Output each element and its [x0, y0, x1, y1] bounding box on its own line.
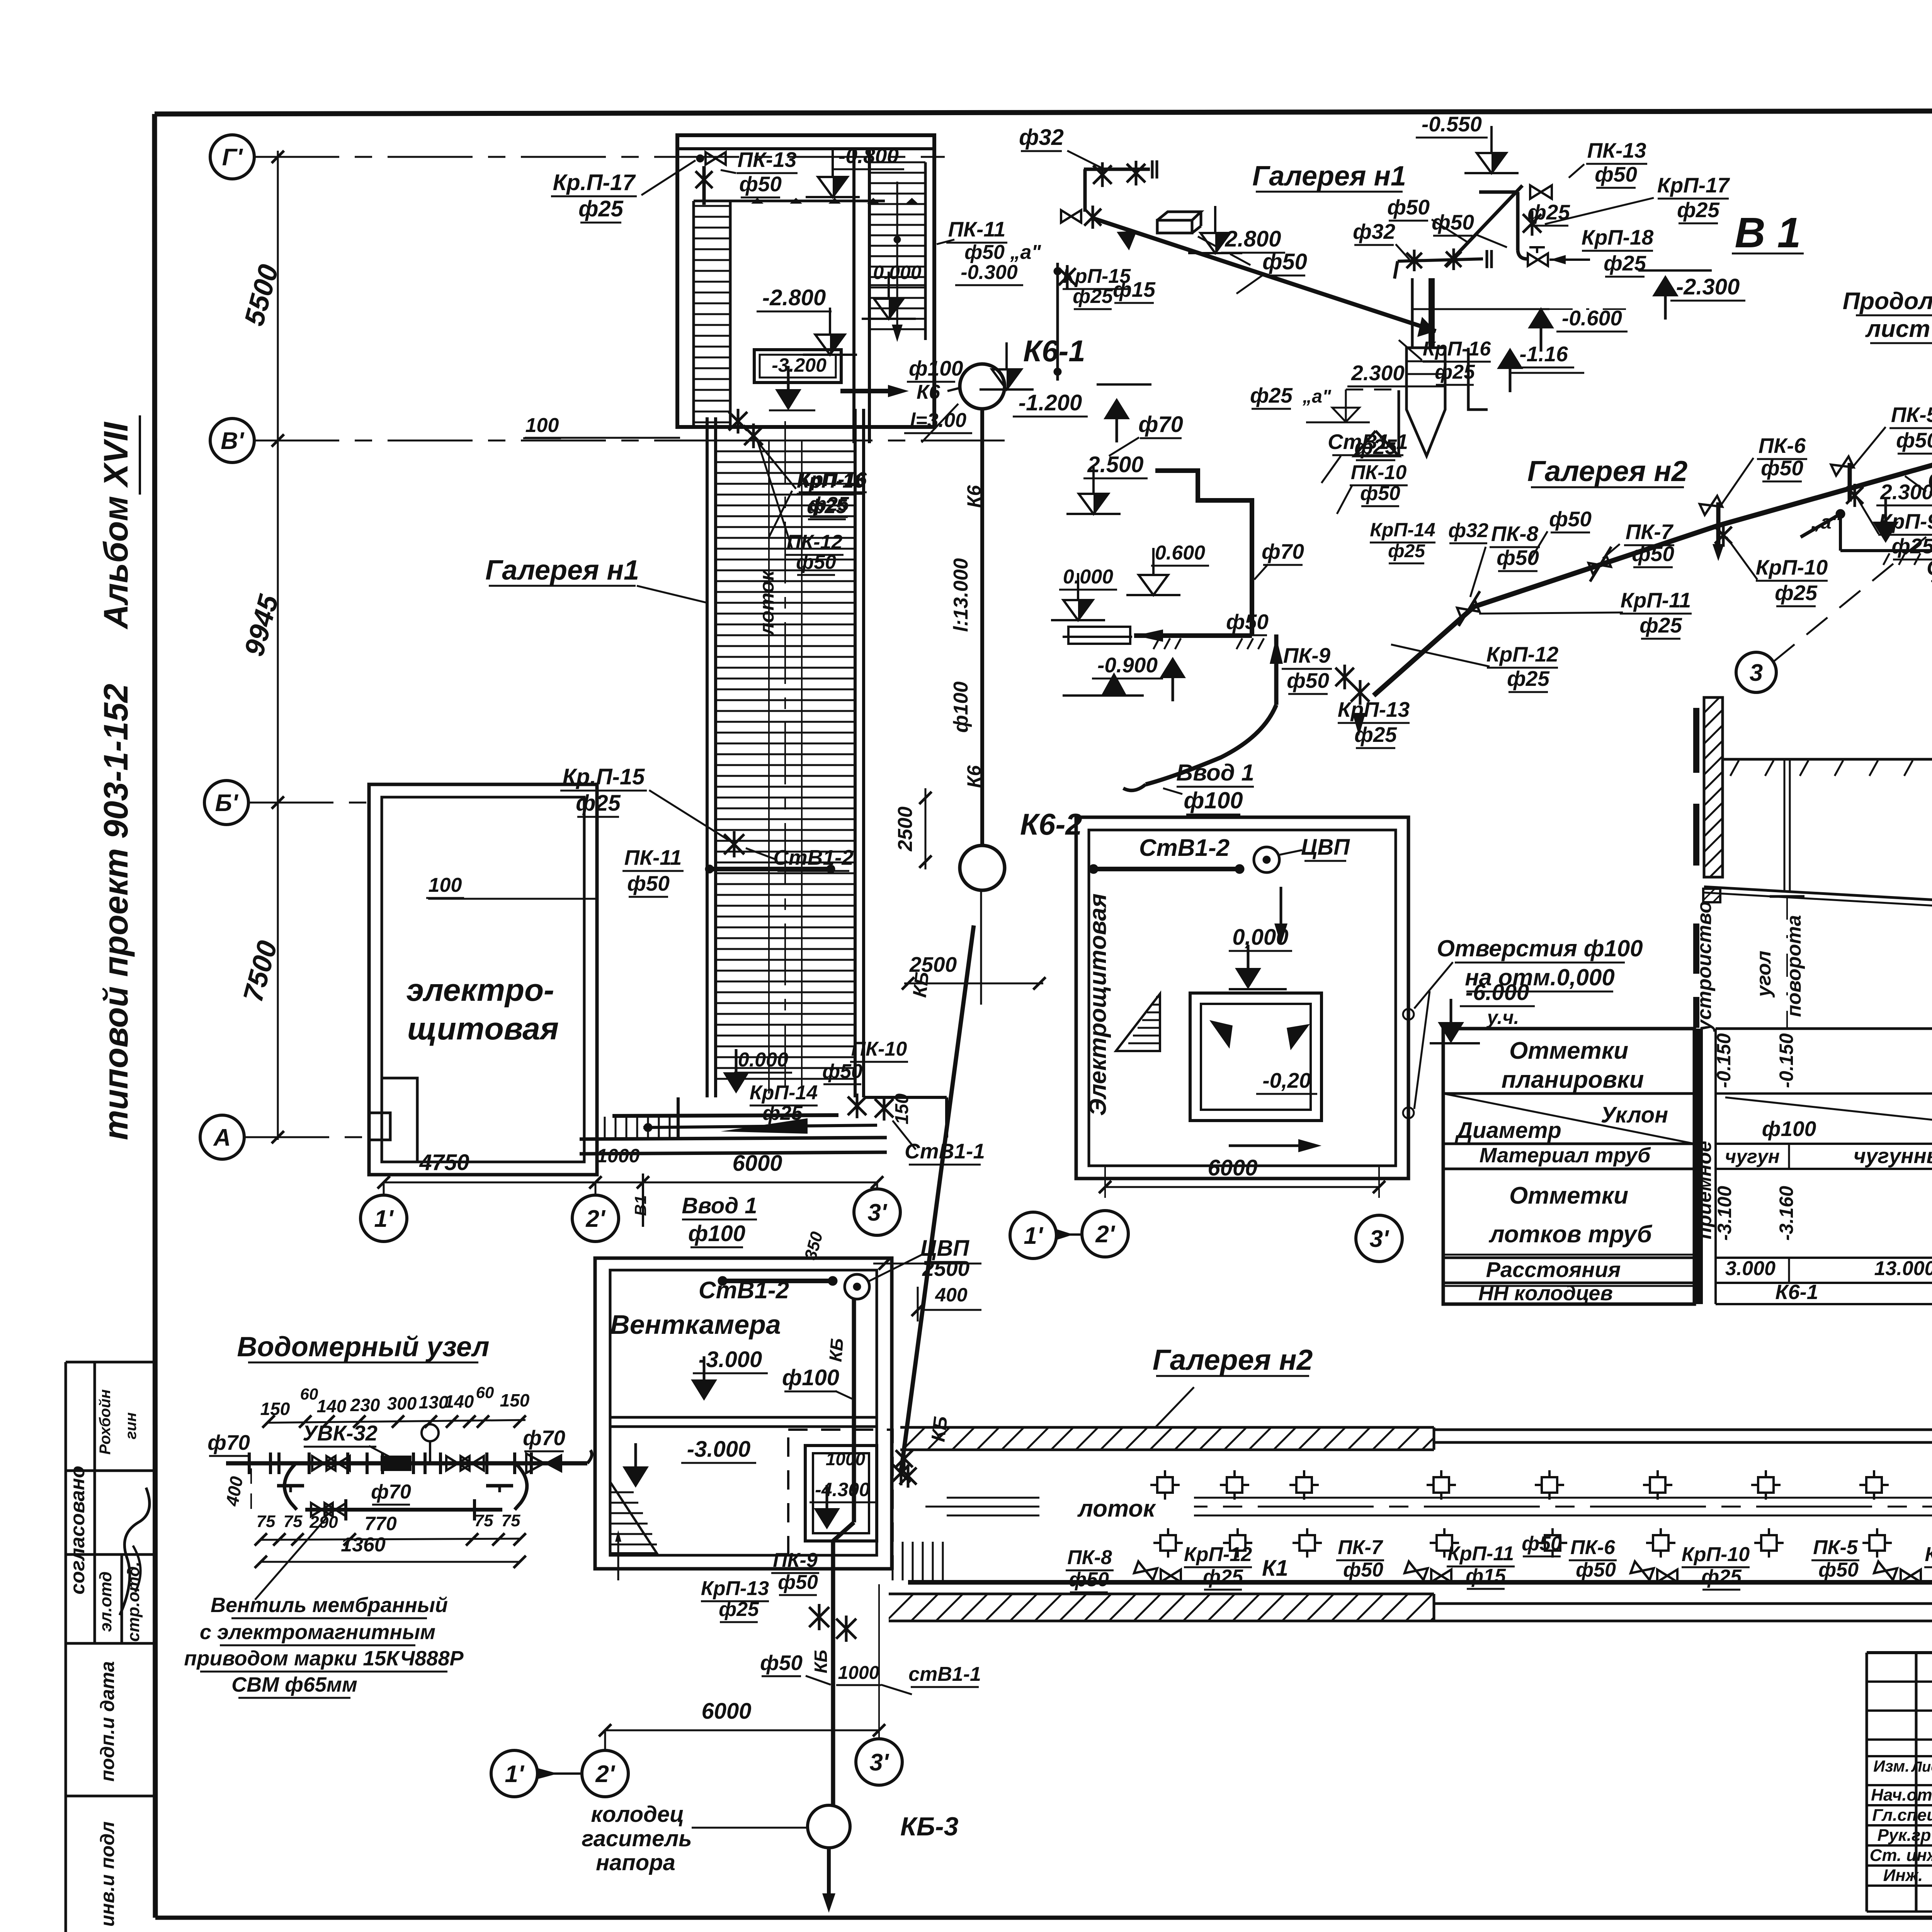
- svg-text:ПК-7: ПК-7: [1626, 520, 1674, 544]
- svg-text:типовой проект 903-1-152: типовой проект 903-1-152: [97, 684, 135, 1140]
- svg-text:ПК-9: ПК-9: [773, 1549, 818, 1571]
- svg-text:ф50: ф50: [739, 172, 782, 196]
- valves on К6 pipe: [809, 1607, 829, 1627]
- svg-text:ф50: ф50: [1226, 610, 1269, 634]
- svg-text:75: 75: [502, 1511, 520, 1530]
- svg-text:Гл.спец: Гл.спец: [1872, 1806, 1932, 1825]
- svg-text:КрП-13: КрП-13: [1338, 697, 1410, 721]
- svg-text:Рук.гр: Рук.гр: [1878, 1826, 1931, 1845]
- dim line 4750/1000/6000: [384, 1182, 877, 1184]
- svg-text:0.000: 0.000: [873, 262, 921, 283]
- axis lines dash-dot: [254, 156, 945, 158]
- svg-text:-0.550: -0.550: [1422, 112, 1482, 136]
- jog ПК-5: [1848, 463, 1852, 502]
- svg-text:ф25: ф25: [1073, 285, 1113, 308]
- svg-text:К6: К6: [963, 765, 985, 788]
- svg-text:КрП-16: КрП-16: [1423, 338, 1491, 360]
- section: left black wall bar: [1693, 708, 1699, 773]
- svg-text:КрП-17: КрП-17: [1657, 173, 1730, 197]
- svg-text:400: 400: [935, 1284, 968, 1306]
- svg-text:Альбом ХVII: Альбом ХVII: [97, 422, 135, 629]
- section: dash verticals to table: [1786, 896, 1788, 1029]
- svg-text:ПК-13: ПК-13: [1587, 138, 1646, 162]
- electro room walls: [369, 784, 597, 1175]
- well К6-1: [960, 364, 1005, 409]
- band left end valves: [896, 1450, 913, 1467]
- dim 2500 rotated + bottom: [980, 890, 982, 1005]
- svg-text:2.800: 2.800: [1225, 226, 1281, 252]
- svg-text:ПК-11: ПК-11: [624, 845, 682, 869]
- svg-text:75: 75: [257, 1512, 276, 1531]
- svg-text:ф15: ф15: [1113, 277, 1156, 301]
- svg-text:у.ч.: у.ч.: [1486, 1007, 1519, 1028]
- svg-text:инв.u подл: инв.u подл: [97, 1821, 118, 1927]
- svg-text:2500: 2500: [894, 806, 917, 852]
- svg-text:ф50: ф50: [1522, 1532, 1562, 1555]
- svg-text:напора: напора: [596, 1850, 675, 1875]
- svg-text:1': 1': [374, 1206, 394, 1232]
- valve cluster top-left (ПК-13): [696, 155, 704, 162]
- valves on main slope: [1457, 600, 1480, 619]
- left tread column: [692, 201, 695, 427]
- pit corner marks: [1209, 1020, 1233, 1049]
- svg-text:Оmмеmкu: Оmмеmкu: [1509, 1182, 1628, 1209]
- svg-text:ф100: ф100: [1762, 1117, 1816, 1141]
- section: floor slope: [1704, 887, 1932, 905]
- svg-text:150: 150: [500, 1390, 530, 1410]
- svg-text:ф25: ф25: [1435, 361, 1475, 383]
- valve pair 1: [1134, 1561, 1157, 1580]
- svg-text:ф32: ф32: [1448, 519, 1488, 542]
- svg-text:75: 75: [474, 1511, 493, 1530]
- svg-text:1000: 1000: [597, 1145, 639, 1167]
- middle plan walls: [1076, 1259, 1077, 1260]
- axis А: [200, 1115, 244, 1159]
- svg-text:0.600: 0.600: [1155, 542, 1205, 564]
- svg-text:КрП-16: КрП-16: [797, 470, 865, 492]
- svg-text:ПК-9: ПК-9: [1283, 643, 1331, 667]
- svg-text:-3.200: -3.200: [772, 354, 827, 376]
- svg-text:ПК-10: ПК-10: [1351, 461, 1407, 484]
- svg-text:ф50: ф50: [1343, 1559, 1383, 1581]
- svg-text:Ввод 1: Ввод 1: [1176, 760, 1254, 786]
- valves main: [312, 1456, 335, 1470]
- svg-text:с элекmромагнumным: с элекmромагнumным: [200, 1621, 435, 1644]
- svg-text:подп.u дата: подп.u дата: [97, 1661, 118, 1782]
- svg-text:эл.отд: эл.отд: [96, 1571, 115, 1632]
- survey crosses: [1157, 1477, 1173, 1493]
- svg-text:КрП-11: КрП-11: [1621, 588, 1691, 612]
- plan: upper stair block walls: [677, 135, 934, 427]
- svg-text:К6-1: К6-1: [1775, 1281, 1818, 1304]
- jog ПК-6: [1716, 502, 1721, 544]
- vent chamber walls: [595, 1258, 892, 1569]
- svg-text:КрП-13: КрП-13: [701, 1577, 769, 1600]
- svg-text:поворота: поворота: [1783, 915, 1805, 1017]
- svg-text:1': 1': [1024, 1223, 1043, 1249]
- gallery H1 corridor walls: [706, 417, 709, 1097]
- svg-text:КрП-9: КрП-9: [1879, 509, 1932, 533]
- svg-text:ф25: ф25: [578, 196, 624, 221]
- svg-text:6000: 6000: [701, 1699, 751, 1724]
- vertical drop + КрП-15 cluster: [1056, 263, 1059, 381]
- gauge: [422, 1424, 439, 1441]
- svg-text:лоток: лоток: [1077, 1495, 1156, 1522]
- svg-text:ф25: ф25: [719, 1598, 759, 1621]
- axis Б': [204, 781, 248, 825]
- СтВ1-2 bar (middle): [1094, 867, 1240, 871]
- bypass pipe: [284, 1464, 297, 1510]
- svg-text:ф32: ф32: [1019, 125, 1064, 150]
- svg-text:ф70: ф70: [207, 1430, 250, 1454]
- svg-text:ф50: ф50: [1360, 482, 1400, 505]
- svg-text:-3.100: -3.100: [1714, 1186, 1735, 1241]
- svg-text:-0.600: -0.600: [1562, 306, 1622, 330]
- svg-text:А: А: [213, 1124, 231, 1151]
- axis dimension line: [277, 151, 279, 1140]
- svg-text:ф50: ф50: [1432, 210, 1474, 234]
- svg-text:Кр.П-17: Кр.П-17: [553, 170, 636, 195]
- horizontal pipe + arrow: [1134, 633, 1252, 638]
- svg-text:1360: 1360: [341, 1534, 386, 1556]
- svg-text:ф25: ф25: [1507, 667, 1550, 690]
- svg-text:Г': Г': [222, 144, 243, 171]
- svg-text:КрП-12: КрП-12: [1486, 642, 1559, 666]
- svg-text:ф50: ф50: [1549, 507, 1592, 531]
- flanges: [248, 1452, 251, 1474]
- svg-text:лоток: лоток: [756, 570, 778, 636]
- section: support columns: [1784, 760, 1786, 893]
- svg-text:СтВ1-2: СтВ1-2: [773, 845, 854, 869]
- svg-text:l:13.000: l:13.000: [950, 558, 972, 632]
- table: value area borders: [1716, 1027, 1932, 1030]
- star valves lower block: [848, 1097, 866, 1115]
- svg-text:В': В': [221, 428, 245, 454]
- horizontal pipe with x marks: [1398, 259, 1483, 261]
- svg-text:0,000: 0,000: [1232, 925, 1288, 950]
- leader ПК-11 to block: [937, 240, 954, 244]
- svg-text:Галерея н1: Галерея н1: [1252, 161, 1406, 192]
- svg-text:лuсm ВК-8: лuсm ВК-8: [1865, 316, 1932, 342]
- svg-text:согласовано: согласовано: [66, 1466, 89, 1594]
- svg-text:ф100: ф100: [909, 356, 963, 380]
- svg-text:ф25: ф25: [1388, 541, 1425, 561]
- svg-text:Инж.: Инж.: [1883, 1866, 1923, 1885]
- svg-text:ф70: ф70: [371, 1481, 411, 1503]
- svg-text:ф15: ф15: [1466, 1565, 1506, 1587]
- svg-text:стр.отд.: стр.отд.: [124, 1561, 143, 1642]
- slope diagonal: [1725, 1097, 1932, 1142]
- svg-text:ф25: ф25: [1527, 200, 1570, 224]
- -3.200 box: [754, 350, 841, 383]
- corridor rails: [768, 440, 770, 1094]
- well К6-3: [808, 1805, 850, 1848]
- thin line y800 + -0.600: [1412, 308, 1549, 310]
- svg-text:ф25: ф25: [1775, 581, 1818, 605]
- box leader dashed: [1198, 236, 1252, 266]
- svg-text:СтВ1-2: СтВ1-2: [699, 1277, 789, 1304]
- svg-text:ПК-10: ПК-10: [851, 1038, 907, 1060]
- svg-text:ф100: ф100: [1184, 787, 1243, 813]
- svg-text:60: 60: [300, 1385, 318, 1403]
- diagonal splitter: [1443, 1094, 1694, 1144]
- svg-text:щиmовая: щиmовая: [407, 1011, 559, 1046]
- gallery H2 top wall hatched: [900, 1426, 1434, 1429]
- svg-text:гасumель: гасumель: [582, 1826, 692, 1851]
- corridor star valves: [729, 412, 747, 430]
- bent intake pipe: [1146, 705, 1276, 784]
- svg-text:ф50: ф50: [1069, 1568, 1109, 1591]
- ПК-13 pipe group: [1479, 190, 1518, 194]
- holes on wall: [1403, 1009, 1414, 1020]
- svg-text:К6-1: К6-1: [1023, 334, 1085, 368]
- svg-text:3': 3': [867, 1199, 887, 1226]
- valve pair 4: [1874, 1561, 1897, 1580]
- svg-text:Оmмеmкu: Оmмеmкu: [1509, 1037, 1628, 1064]
- svg-text:100: 100: [526, 414, 559, 437]
- pit -4.300 with dashed box: [788, 1430, 893, 1569]
- svg-text:-2.300: -2.300: [1676, 274, 1740, 299]
- svg-text:угол: угол: [1753, 951, 1775, 998]
- svg-text:3: 3: [1750, 660, 1763, 686]
- К6 pipe down from vent chamber: [852, 1299, 856, 1522]
- svg-text:ф50: ф50: [1896, 428, 1932, 452]
- svg-text:ф50: ф50: [1387, 195, 1430, 219]
- middle plan stairs: [1116, 994, 1160, 1051]
- svg-text:ф50: ф50: [796, 551, 836, 573]
- svg-text:КрП-11: КрП-11: [1447, 1543, 1514, 1565]
- svg-text:КрП-18: КрП-18: [1582, 225, 1654, 249]
- svg-text:-3.000: -3.000: [687, 1437, 750, 1462]
- corridor treads: [717, 440, 854, 442]
- section: hatched wall: [1704, 697, 1723, 877]
- svg-text:К1: К1: [1262, 1556, 1288, 1581]
- svg-text:140: 140: [317, 1396, 347, 1416]
- svg-text:2': 2': [1095, 1221, 1115, 1248]
- lines + rects lower: [1063, 636, 1132, 638]
- axis В': [210, 418, 254, 463]
- svg-text:ф50: ф50: [1818, 1559, 1859, 1581]
- svg-text:0.000: 0.000: [738, 1049, 788, 1071]
- СтВ1-2 bar (corridor): [707, 867, 831, 871]
- svg-text:2': 2': [595, 1761, 615, 1787]
- svg-text:Б': Б': [215, 790, 239, 816]
- svg-text:Галерея н2: Галерея н2: [1527, 455, 1688, 487]
- svg-text:ф50 „а": ф50 „а": [964, 241, 1041, 264]
- dot + branch: [1836, 509, 1845, 519]
- svg-text:Рассmоянuя: Рассmоянuя: [1486, 1257, 1621, 1282]
- lower block treads: [604, 1117, 606, 1138]
- mid wall: [852, 149, 855, 443]
- svg-text:ф50: ф50: [1595, 162, 1637, 186]
- svg-text:СтВ1-2: СтВ1-2: [1139, 835, 1230, 861]
- svg-text:прuемное: прuемное: [1693, 1141, 1716, 1240]
- pipe Ввод1 on plan: [643, 1125, 877, 1128]
- svg-text:-0.800: -0.800: [838, 144, 899, 168]
- svg-text:-1.200: -1.200: [1019, 390, 1082, 415]
- svg-text:-3.160: -3.160: [1776, 1186, 1797, 1241]
- svg-text:Ввод 1: Ввод 1: [682, 1193, 757, 1218]
- diagonal ф50 branch: [1445, 185, 1522, 267]
- svg-text:ф25: ф25: [1677, 198, 1720, 222]
- right flight treads: [924, 162, 927, 340]
- vertical arrow pipe: [1274, 634, 1279, 705]
- axis 1' 2' 3' middle: [1010, 1212, 1056, 1259]
- value col dividers: [1788, 1144, 1790, 1169]
- filter black: [381, 1456, 412, 1471]
- lower stair block: [677, 1097, 680, 1139]
- svg-text:ЦВП: ЦВП: [1301, 835, 1350, 860]
- well К6-2: [960, 845, 1005, 890]
- svg-text:Продолженuе см: Продолженuе см: [1843, 288, 1932, 315]
- svg-text:Дuамеmр: Дuамеmр: [1454, 1118, 1561, 1143]
- svg-text:ф50: ф50: [1262, 249, 1307, 274]
- axis 1' 2' with arrow: [491, 1750, 537, 1797]
- svg-text:ПК-8: ПК-8: [1491, 522, 1539, 546]
- svg-text:сmВ1-1: сmВ1-1: [908, 1663, 981, 1685]
- black valve right: [544, 1454, 562, 1473]
- svg-text:ф70: ф70: [1138, 412, 1183, 437]
- svg-text:60: 60: [476, 1383, 494, 1401]
- svg-text:ПК-5: ПК-5: [1891, 403, 1932, 427]
- svg-text:планuровкu: планuровкu: [1502, 1066, 1644, 1093]
- trough lines лоток: [947, 1497, 1932, 1499]
- T bars: [277, 1484, 304, 1488]
- svg-text:ПК-6: ПК-6: [1759, 434, 1806, 457]
- down arrow: [1280, 887, 1282, 923]
- svg-text:150: 150: [260, 1399, 290, 1419]
- svg-text:3.000: 3.000: [1725, 1257, 1776, 1280]
- svg-text:2.500: 2.500: [1087, 452, 1143, 477]
- svg-text:ф25: ф25: [762, 1102, 803, 1124]
- svg-text:ф100: ф100: [950, 682, 972, 733]
- svg-text:ф25: ф25: [1250, 383, 1293, 407]
- svg-text:-2.800: -2.800: [762, 285, 826, 310]
- svg-text:ф25: ф25: [807, 495, 847, 518]
- svg-text:КрП-10: КрП-10: [1756, 555, 1828, 579]
- svg-text:1000: 1000: [838, 1663, 879, 1683]
- svg-text:2.300: 2.300: [1351, 361, 1405, 385]
- svg-text:ПК-12: ПК-12: [787, 531, 843, 553]
- svg-text:Водомерный узел: Водомерный узел: [237, 1332, 489, 1362]
- svg-text:усmройсmво: усmройсmво: [1693, 901, 1716, 1032]
- title block signature table: [1866, 1653, 1868, 1912]
- svg-text:13.000: 13.000: [1874, 1257, 1932, 1280]
- valve pair 3: [1631, 1561, 1654, 1580]
- svg-text:ПК-11: ПК-11: [948, 217, 1006, 241]
- riser pipe at wall: [702, 166, 706, 205]
- svg-text:ф50: ф50: [1632, 542, 1674, 566]
- shallow diagonal ф50: [1094, 219, 1436, 331]
- svg-text:Рохбойн: Рохбойн: [97, 1389, 114, 1454]
- svg-text:ф50: ф50: [822, 1060, 862, 1083]
- gallery H2 bottom wall hatched: [889, 1593, 1434, 1595]
- svg-text:прuводом маркu 15КЧ888Р: прuводом маркu 15КЧ888Р: [184, 1647, 464, 1670]
- svg-text:Лuсm: Лuсm: [1911, 1759, 1932, 1775]
- circle 3 leader: [1736, 652, 1776, 692]
- axis Г': [210, 135, 254, 179]
- svg-text:Элекmрощumовая: Элекmрощumовая: [1085, 893, 1111, 1116]
- svg-text:-6.000: -6.000: [1466, 980, 1529, 1005]
- svg-text:140: 140: [444, 1391, 474, 1412]
- margin signature squiggle: [120, 1488, 150, 1615]
- svg-text:ф100: ф100: [782, 1365, 839, 1390]
- svg-text:ф50: ф50: [1761, 456, 1803, 480]
- svg-text:100: 100: [429, 874, 462, 896]
- svg-text:3': 3': [869, 1749, 889, 1776]
- svg-text:КБ: КБ: [825, 1337, 847, 1362]
- pipe К6 vertical К6-1 to К6-2: [980, 409, 984, 845]
- svg-text:ф50: ф50: [1576, 1559, 1616, 1581]
- top landing tick marks: [0, 0, 796, 0]
- valve pair 2: [1405, 1561, 1428, 1580]
- svg-text:1': 1': [505, 1761, 524, 1787]
- svg-text:В 1: В 1: [1735, 209, 1801, 257]
- ПК-11 valve node: [1061, 210, 1081, 223]
- svg-text:ф50: ф50: [778, 1571, 818, 1594]
- svg-text:-0.150: -0.150: [1776, 1033, 1797, 1088]
- svg-text:ф25: ф25: [1203, 1566, 1243, 1588]
- svg-text:0.000: 0.000: [1063, 566, 1113, 588]
- svg-text:-0.150: -0.150: [1713, 1033, 1735, 1088]
- table: black divider bar: [1696, 1029, 1703, 1304]
- svg-text:ф25: ф25: [1639, 613, 1682, 637]
- svg-text:К6: К6: [963, 485, 985, 508]
- svg-text:2.300: 2.300: [1880, 480, 1932, 504]
- К6 pipe out of box: [840, 389, 888, 393]
- svg-text:КрП-14: КрП-14: [750, 1082, 818, 1104]
- svg-text:6000: 6000: [732, 1151, 782, 1176]
- svg-text:-1.16: -1.16: [1519, 342, 1568, 366]
- svg-text:ф50: ф50: [627, 871, 670, 895]
- svg-text:Ст. uнж.: Ст. uнж.: [1870, 1846, 1932, 1865]
- svg-text:чугунные: чугунные: [1854, 1144, 1932, 1168]
- svg-text:„а": „а": [1302, 386, 1332, 407]
- svg-text:К6-2: К6-2: [1020, 807, 1082, 841]
- section: ground line: [1723, 758, 1932, 761]
- svg-text:150: 150: [892, 1094, 912, 1124]
- svg-text:ПК-7: ПК-7: [1338, 1536, 1383, 1559]
- svg-text:ф32: ф32: [1353, 219, 1395, 243]
- svg-text:ф100: ф100: [688, 1221, 745, 1246]
- 3D box + 2.800: [1157, 220, 1192, 233]
- svg-text:Галерея н1: Галерея н1: [485, 555, 639, 586]
- star valve Кр.П-15: [724, 834, 744, 854]
- svg-text:СтВ1-1: СтВ1-1: [1328, 430, 1408, 454]
- svg-text:-0,20: -0,20: [1262, 1068, 1311, 1092]
- svg-text:3': 3': [1369, 1226, 1389, 1252]
- electro room niche: [382, 1078, 417, 1162]
- svg-text:ПК-8: ПК-8: [1067, 1546, 1112, 1569]
- svg-text:l=3.00: l=3.00: [910, 409, 966, 432]
- svg-text:ф70: ф70: [1262, 539, 1304, 563]
- svg-text:ф50: ф50: [1928, 466, 1932, 491]
- svg-text:КрП-14: КрП-14: [1370, 519, 1435, 541]
- inner pit square: [1190, 993, 1321, 1121]
- svg-text:ф25: ф25: [1701, 1566, 1742, 1588]
- svg-text:Нач.оmд: Нач.оmд: [1871, 1786, 1932, 1804]
- svg-text:КрП-12: КрП-12: [1184, 1543, 1252, 1566]
- ЦВП circle (vent): [845, 1274, 869, 1299]
- svg-text:ф50: ф50: [1287, 668, 1329, 692]
- svg-text:Маmерuал mруб: Маmерuал mруб: [1480, 1144, 1651, 1167]
- svg-text:К6: К6: [917, 381, 940, 403]
- svg-text:В1: В1: [631, 1195, 650, 1216]
- vent chamber stairs: [610, 1482, 657, 1553]
- svg-text:Венmuль мембранный: Венmuль мембранный: [211, 1594, 448, 1617]
- corridor center line лоток: [784, 421, 786, 1094]
- main pipe: [226, 1461, 587, 1466]
